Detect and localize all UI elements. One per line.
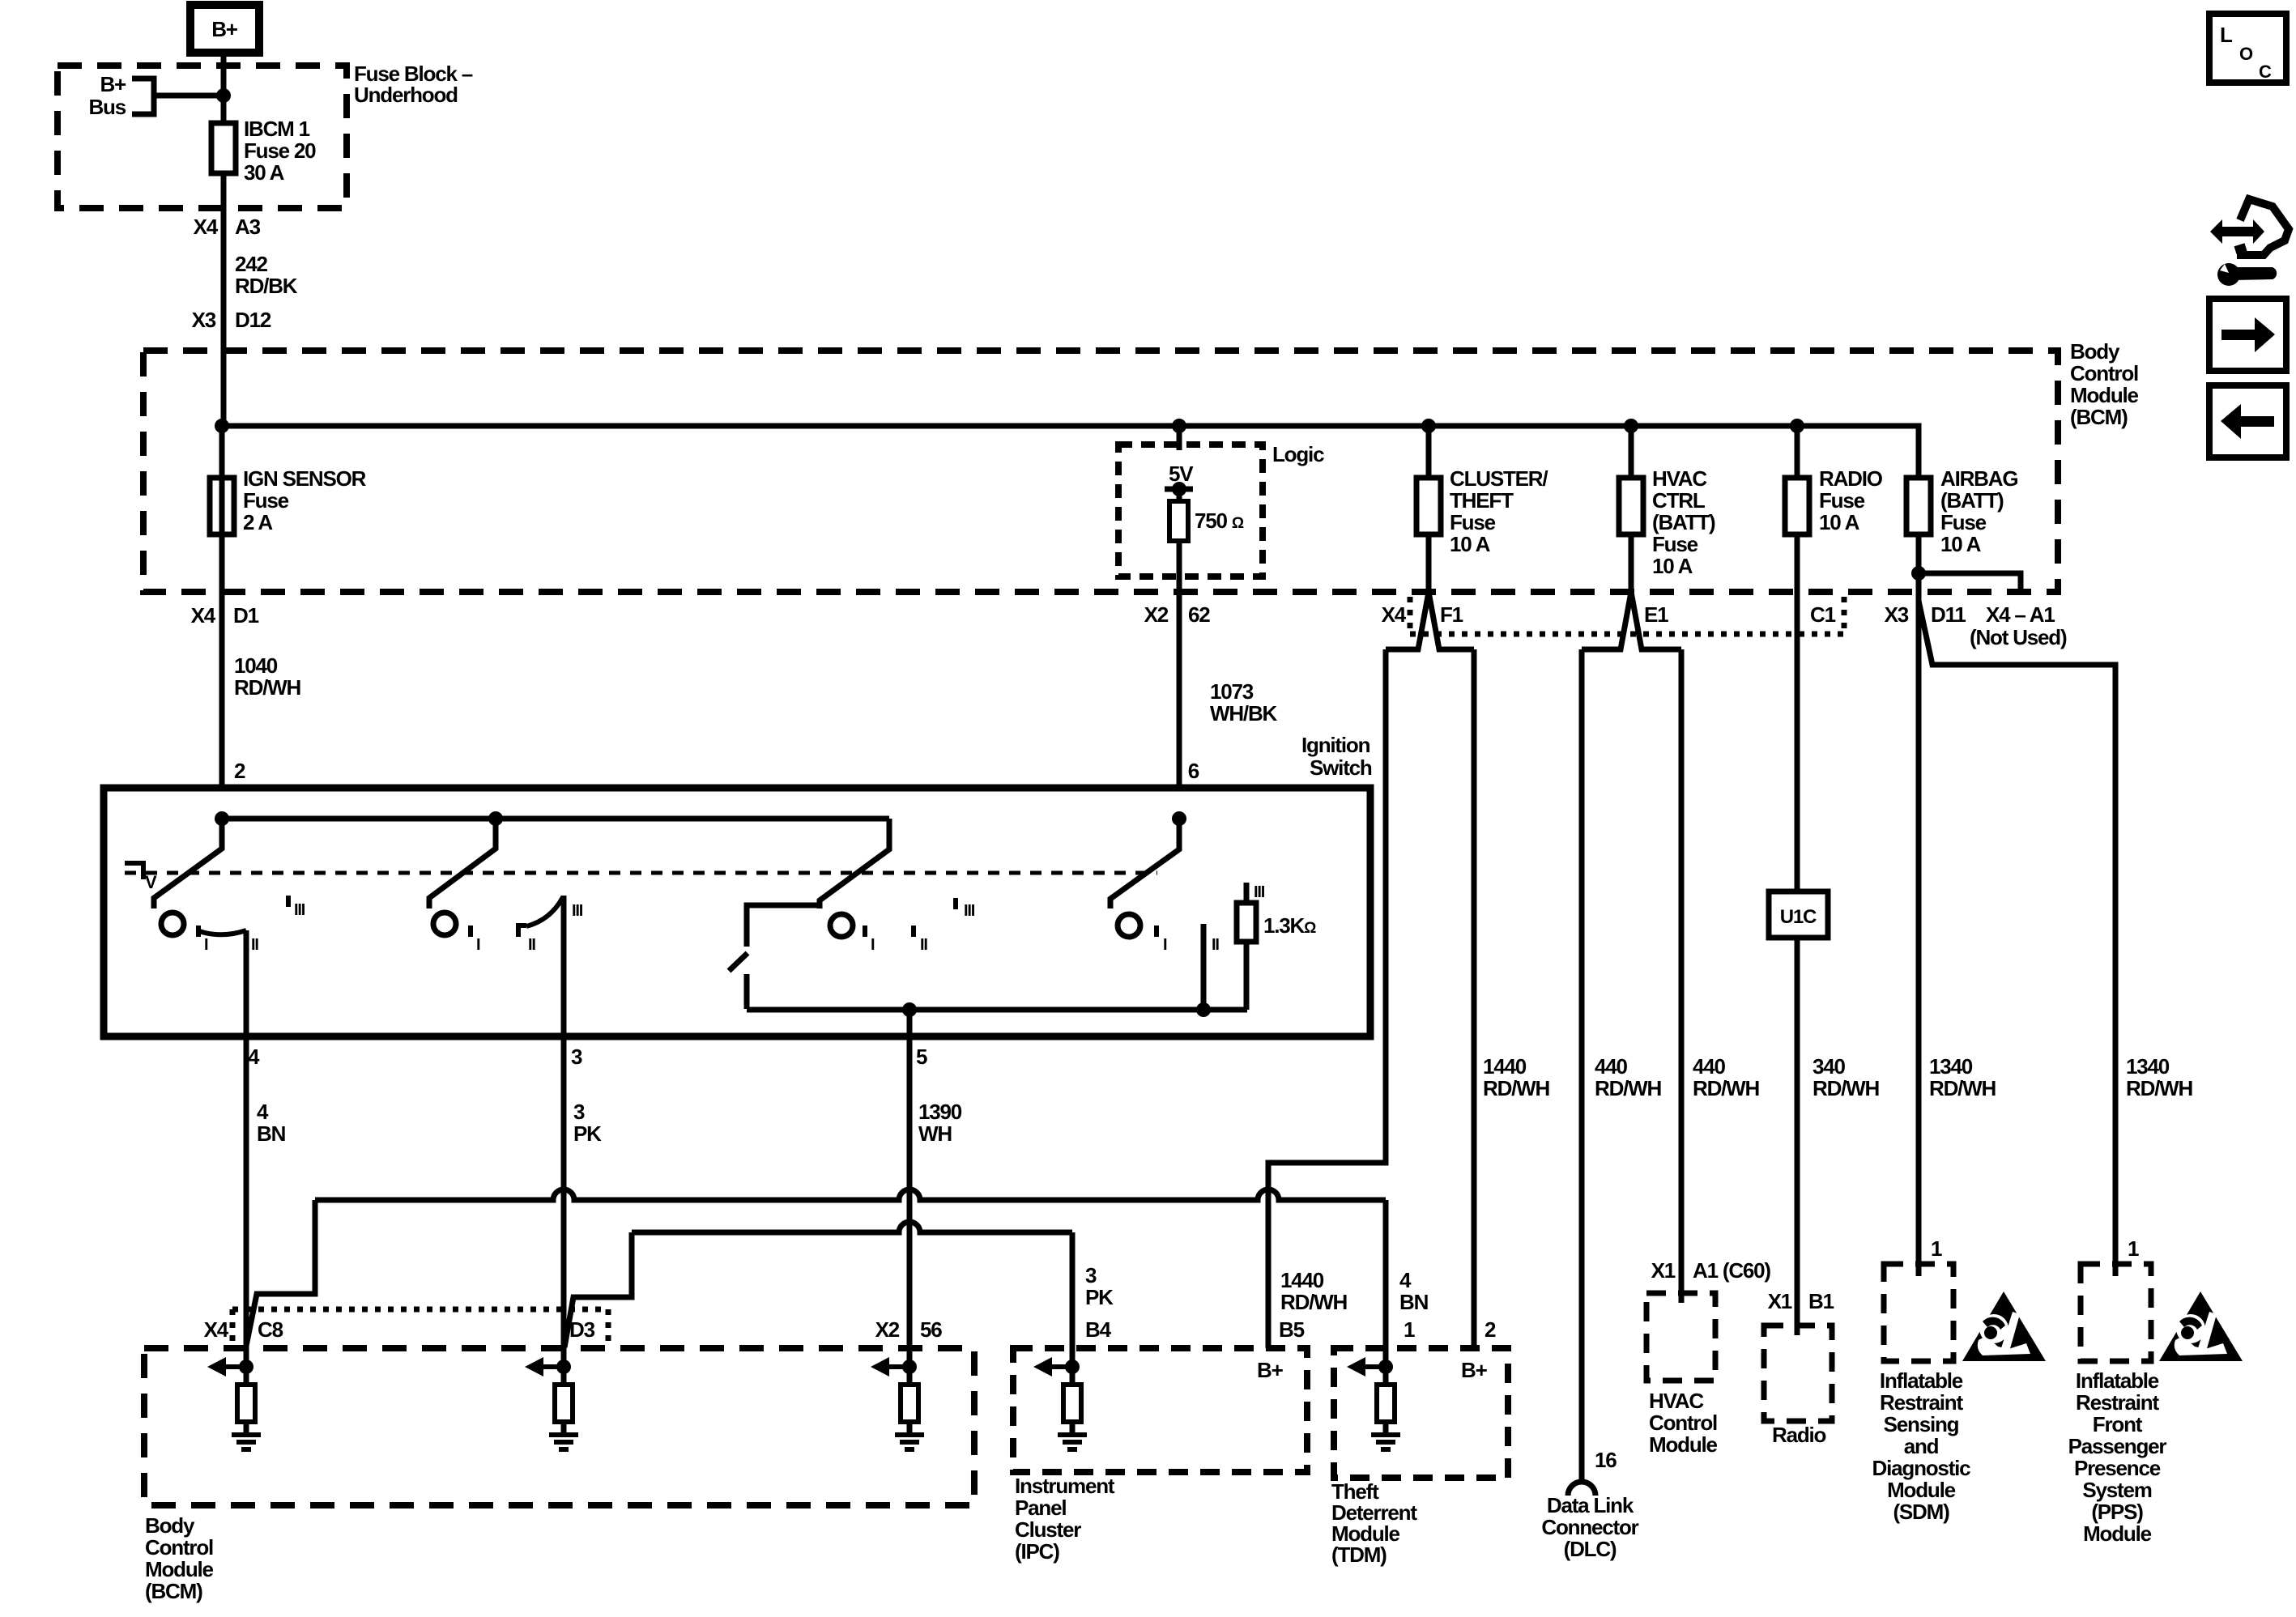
svg-text:Front: Front: [2093, 1412, 2143, 1436]
svg-text:B5: B5: [1279, 1317, 1305, 1342]
svg-text:1340: 1340: [2126, 1054, 2170, 1079]
svg-text:Fuse: Fuse: [243, 488, 289, 513]
svg-text:PK: PK: [573, 1121, 602, 1146]
svg-text:RD/WH: RD/WH: [1595, 1076, 1662, 1100]
svg-text:B+: B+: [211, 17, 238, 41]
svg-text:Bus: Bus: [88, 95, 126, 119]
left arrow navigation box: [2209, 385, 2286, 457]
svg-text:1: 1: [1404, 1317, 1415, 1342]
svg-text:A1 (C60): A1 (C60): [1693, 1258, 1770, 1283]
svg-text:HVAC: HVAC: [1652, 466, 1707, 491]
svg-text:(DLC): (DLC): [1564, 1537, 1617, 1561]
svg-text:RD/BK: RD/BK: [235, 274, 298, 298]
svg-text:I: I: [204, 936, 208, 954]
H2 horizontal with hop: [632, 1222, 1072, 1232]
svg-text:III: III: [572, 902, 583, 920]
svg-text:X4: X4: [1382, 602, 1407, 627]
svg-text:(BCM): (BCM): [2070, 405, 2128, 429]
connector dotted line X4 bottom: [230, 1309, 236, 1344]
svg-text:II: II: [920, 936, 927, 954]
connector D3 arrow resistor ground: [556, 1360, 571, 1374]
switch 3 tick II: [911, 926, 916, 937]
wire B+ Bus to main vertical: [154, 93, 224, 99]
wire 750 ohm to ignition switch pin 6: [1177, 541, 1182, 788]
data link connector cup: [1568, 1482, 1595, 1496]
fuse block underhood dashed box: [58, 66, 347, 208]
svg-text:1390: 1390: [918, 1100, 962, 1124]
svg-text:440: 440: [1693, 1054, 1726, 1079]
switch 3 bottom run: [747, 1007, 1247, 1013]
svg-text:System: System: [2082, 1478, 2151, 1502]
svg-text:X4: X4: [191, 603, 216, 628]
svg-text:(SDM): (SDM): [1893, 1500, 1949, 1524]
svg-text:V: V: [145, 872, 157, 892]
position dashed line: [125, 871, 1157, 875]
svg-text:D1: D1: [233, 603, 259, 628]
wire pin 4 inside box: [244, 930, 249, 1036]
svg-text:I: I: [1163, 936, 1167, 954]
switch 1 tick I: [196, 926, 201, 937]
svg-text:U1C: U1C: [1780, 906, 1817, 928]
svg-text:Fuse: Fuse: [1652, 532, 1698, 556]
svg-text:II: II: [1212, 936, 1219, 954]
connector 56 arrow resistor ground: [902, 1360, 917, 1374]
F1 splice tent: [1386, 592, 1474, 649]
svg-text:THEFT: THEFT: [1450, 488, 1514, 513]
svg-text:C: C: [2259, 62, 2272, 82]
U1C inline connector box: [1769, 891, 1828, 938]
svg-text:3: 3: [1085, 1263, 1097, 1287]
svg-text:Passenger: Passenger: [2068, 1434, 2167, 1458]
wire pin 3 inside box: [561, 896, 567, 1036]
svg-text:II: II: [528, 936, 535, 954]
svg-text:Cluster: Cluster: [1015, 1517, 1081, 1542]
svg-text:D11: D11: [1931, 602, 1966, 627]
junction dot bus at hvac fuse: [1624, 419, 1638, 433]
airbag warning triangle SDM: [1962, 1291, 2046, 1361]
B+ battery feed box: [190, 5, 259, 53]
accessory position symbol: [125, 863, 143, 879]
connector B4 arrow resistor ground: [1065, 1360, 1080, 1374]
svg-text:X3: X3: [192, 308, 216, 332]
svg-text:III: III: [964, 902, 975, 920]
wire 4 BN to BCM C8: [244, 1036, 249, 1367]
switch 4 position II wire: [1201, 924, 1207, 1010]
svg-text:RADIO: RADIO: [1819, 466, 1883, 491]
fuse AIRBAG BATT 10A: [1916, 478, 1922, 1276]
H1 horizontal with hops: [315, 1189, 1386, 1200]
svg-text:II: II: [251, 936, 258, 954]
svg-text:BN: BN: [1399, 1290, 1429, 1314]
svg-text:Inflatable: Inflatable: [1880, 1368, 1963, 1393]
wire F1 left leg to B5: [1268, 649, 1386, 1348]
svg-text:30 A: 30 A: [244, 160, 285, 185]
svg-text:2: 2: [234, 759, 245, 783]
svg-text:X1: X1: [1651, 1258, 1676, 1283]
svg-text:(PPS): (PPS): [2091, 1500, 2143, 1524]
svg-text:WH: WH: [918, 1121, 952, 1146]
svg-text:X2: X2: [875, 1317, 900, 1342]
switch 3 lower contact: [744, 974, 750, 1009]
switch 3 flipper: [820, 819, 889, 908]
switch 2 flipper: [429, 819, 496, 908]
junction dot bus at radio fuse: [1790, 419, 1804, 433]
right arrow navigation box: [2209, 299, 2286, 371]
stub wire X4-A1 not used: [1919, 573, 2021, 592]
switch 1 contact circle: [161, 913, 184, 935]
bus wire inside BCM: [222, 426, 1919, 478]
switch rail wire: [222, 816, 889, 822]
svg-text:10 A: 10 A: [1652, 554, 1693, 578]
fuse HVAC CTRL BATT 10A: [1629, 426, 1634, 592]
inflatable restraint SDM dashed box: [1884, 1264, 1953, 1361]
svg-text:Inflatable: Inflatable: [2076, 1368, 2159, 1393]
svg-text:Control: Control: [145, 1535, 213, 1560]
svg-text:Logic: Logic: [1272, 442, 1324, 466]
vehicle data icon with arrow and wrench: [2235, 199, 2289, 255]
body control module BCM dashed box: [143, 351, 2058, 592]
svg-text:Module: Module: [1649, 1432, 1718, 1457]
switch 3 tick III: [953, 898, 958, 909]
wire bus to 5V: [1177, 426, 1182, 450]
svg-text:62: 62: [1188, 602, 1210, 627]
svg-text:Fuse: Fuse: [1450, 510, 1496, 534]
svg-text:Ignition: Ignition: [1301, 733, 1370, 757]
svg-text:4: 4: [1399, 1268, 1412, 1292]
svg-text:B+: B+: [100, 72, 126, 96]
switch 2 tick II corner: [518, 926, 526, 937]
switch 3 tick I: [863, 926, 867, 937]
hvac control module dashed box: [1646, 1293, 1715, 1381]
junction dot B+ bus: [216, 88, 231, 103]
H2 drop to IPC B4: [1070, 1232, 1076, 1367]
svg-text:RD/WH: RD/WH: [1693, 1076, 1760, 1100]
svg-text:X2: X2: [1144, 602, 1169, 627]
inflatable restraint PPS dashed box: [2081, 1264, 2151, 1361]
svg-text:and: and: [1904, 1434, 1939, 1458]
junction dot bus at IGN SENSOR: [215, 419, 229, 433]
svg-text:5: 5: [916, 1045, 927, 1069]
svg-text:L: L: [2220, 23, 2233, 47]
svg-text:Underhood: Underhood: [354, 83, 458, 107]
svg-text:Module: Module: [1887, 1478, 1956, 1502]
switch 4 contact circle: [1118, 914, 1140, 937]
connector C8 arrow resistor ground: [239, 1360, 253, 1374]
fuse IBCM 1 30A: [211, 123, 236, 173]
svg-text:IGN SENSOR: IGN SENSOR: [243, 466, 367, 491]
D11 splice diagonal to PPS: [1919, 601, 2115, 1276]
BCM bottom dashed box: [144, 1348, 974, 1505]
junction dot bus at cluster fuse: [1421, 419, 1436, 433]
svg-text:Connector: Connector: [1541, 1515, 1638, 1539]
svg-text:A3: A3: [235, 215, 261, 239]
fuse CLUSTER/THEFT 10A: [1426, 426, 1432, 592]
svg-text:Panel: Panel: [1015, 1496, 1066, 1520]
svg-text:Body: Body: [2070, 339, 2120, 364]
switch 4 tick I: [1154, 926, 1159, 937]
svg-text:AIRBAG: AIRBAG: [1940, 466, 2017, 491]
switch 3 start contact runway: [747, 905, 821, 947]
svg-text:RD/WH: RD/WH: [1280, 1290, 1348, 1314]
svg-text:(IPC): (IPC): [1015, 1539, 1059, 1564]
svg-text:(Not Used): (Not Used): [1970, 625, 2067, 649]
svg-text:B4: B4: [1085, 1317, 1112, 1342]
svg-text:6: 6: [1188, 759, 1199, 783]
airbag warning triangle PPS: [2159, 1291, 2243, 1361]
junction dot airbag output: [1911, 566, 1926, 581]
svg-text:1440: 1440: [1280, 1268, 1324, 1292]
svg-text:WH/BK: WH/BK: [1210, 701, 1278, 726]
logic dashed box: [1118, 445, 1263, 577]
H1 drop to TDM pin 1: [1383, 1200, 1389, 1367]
svg-text:56: 56: [920, 1317, 942, 1342]
svg-text:340: 340: [1813, 1054, 1846, 1079]
B+ Bus bracket: [132, 79, 154, 114]
svg-text:Radio: Radio: [1772, 1423, 1826, 1447]
svg-text:Module: Module: [145, 1557, 214, 1581]
svg-text:Restraint: Restraint: [1880, 1390, 1963, 1415]
svg-text:242: 242: [235, 252, 268, 276]
junction dot rail sw1: [215, 811, 229, 826]
switch 3 contact circle: [830, 914, 853, 937]
switch 2 wiper arc to III: [526, 897, 563, 926]
svg-text:RD/WH: RD/WH: [2126, 1076, 2193, 1100]
fuse IGN SENSOR 2A: [210, 478, 234, 534]
svg-text:I: I: [871, 936, 875, 954]
svg-text:Switch: Switch: [1310, 755, 1372, 780]
svg-text:B+: B+: [1257, 1358, 1284, 1382]
svg-text:16: 16: [1595, 1448, 1617, 1472]
wire E1 right leg to HVAC: [1679, 649, 1685, 1303]
svg-text:10 A: 10 A: [1940, 532, 1982, 556]
splice H1 from wire 4 to TDM pin 1: [246, 1200, 315, 1346]
ignition switch box: [104, 788, 1370, 1036]
svg-text:10 A: 10 A: [1450, 532, 1491, 556]
svg-text:Control: Control: [2070, 361, 2138, 385]
svg-text:BN: BN: [257, 1121, 286, 1146]
svg-text:Diagnostic: Diagnostic: [1872, 1456, 1971, 1480]
svg-text:1: 1: [2128, 1236, 2139, 1261]
svg-text:2 A: 2 A: [243, 510, 273, 534]
switch 4 flipper: [1110, 819, 1179, 908]
switch 2 tick I: [468, 926, 473, 937]
wire 3 PK to BCM D3: [561, 1036, 567, 1367]
wire fuse to fuse block bottom: [221, 123, 227, 426]
wire B+ to fuse block: [221, 53, 227, 123]
radio dashed box: [1764, 1326, 1832, 1421]
svg-text:Instrument: Instrument: [1015, 1474, 1115, 1498]
fuse RADIO 10A: [1795, 426, 1800, 1335]
svg-text:Module: Module: [2070, 383, 2139, 407]
wire F1 right leg to TDM pin 2: [1472, 649, 1477, 1348]
junction dot sw4: [1172, 811, 1186, 826]
resistor 1.3K ohm: [1244, 883, 1250, 903]
svg-text:1340: 1340: [1929, 1054, 1973, 1079]
svg-text:1040: 1040: [234, 653, 278, 678]
svg-text:Fuse 20: Fuse 20: [244, 138, 316, 163]
5V supply bar: [1165, 487, 1193, 492]
theft deterrent module dashed box: [1334, 1348, 1508, 1478]
svg-text:D12: D12: [235, 308, 271, 332]
switch 3 start blade: [729, 953, 748, 971]
svg-text:IBCM 1: IBCM 1: [244, 117, 310, 141]
svg-text:4: 4: [248, 1045, 260, 1069]
junction dot rail sw2: [488, 811, 503, 826]
wire pin 5 inside box: [907, 1010, 913, 1036]
instrument panel cluster dashed box: [1013, 1348, 1307, 1472]
svg-text:(TDM): (TDM): [1331, 1543, 1387, 1567]
svg-text:III: III: [294, 901, 305, 919]
svg-text:RD/WH: RD/WH: [1483, 1076, 1550, 1100]
wire 5 1390 WH to BCM 56: [907, 1036, 913, 1367]
svg-text:C1: C1: [1810, 602, 1836, 627]
junction dot pin 5: [902, 1002, 917, 1017]
junction dot II line: [1196, 1002, 1211, 1017]
svg-text:B1: B1: [1808, 1289, 1834, 1313]
svg-text:2: 2: [1485, 1317, 1496, 1342]
svg-text:CLUSTER/: CLUSTER/: [1450, 466, 1548, 491]
junction dot bus at logic: [1172, 419, 1186, 433]
svg-text:10 A: 10 A: [1819, 510, 1860, 534]
svg-text:Fuse: Fuse: [1940, 510, 1987, 534]
svg-text:(BATT): (BATT): [1652, 510, 1715, 534]
E1 splice tent: [1582, 592, 1681, 649]
svg-text:X3: X3: [1885, 602, 1909, 627]
svg-text:I: I: [476, 936, 480, 954]
inner connector dotted rect X4-C1: [1408, 597, 1413, 634]
svg-text:440: 440: [1595, 1054, 1628, 1079]
svg-text:4: 4: [257, 1100, 269, 1124]
svg-text:X4: X4: [194, 215, 219, 239]
svg-text:Control: Control: [1649, 1411, 1717, 1435]
svg-text:RD/WH: RD/WH: [1929, 1076, 1996, 1100]
svg-text:F1: F1: [1440, 602, 1463, 627]
svg-text:1073: 1073: [1210, 679, 1254, 704]
switch 1 flipper: [154, 819, 222, 908]
svg-text:X1: X1: [1768, 1289, 1792, 1313]
svg-text:RD/WH: RD/WH: [1813, 1076, 1880, 1100]
svg-text:HVAC: HVAC: [1649, 1389, 1704, 1413]
svg-text:O: O: [2239, 44, 2253, 64]
splice H2 from wire 3 to IPC B4: [564, 1232, 632, 1347]
svg-text:(BCM): (BCM): [145, 1579, 202, 1603]
svg-text:CTRL: CTRL: [1652, 488, 1706, 513]
svg-text:C8: C8: [258, 1317, 283, 1342]
svg-text:E1: E1: [1644, 602, 1668, 627]
svg-text:B+: B+: [1461, 1358, 1488, 1382]
svg-text:Restraint: Restraint: [2076, 1390, 2159, 1415]
svg-text:Fuse: Fuse: [1819, 488, 1865, 513]
wire D1 to ignition switch pin 2: [219, 426, 225, 788]
svg-text:3: 3: [571, 1045, 582, 1069]
svg-text:RD/WH: RD/WH: [234, 675, 301, 700]
svg-text:X4 – A1: X4 – A1: [1986, 602, 2055, 627]
junction dot 5V: [1172, 482, 1186, 496]
svg-text:1440: 1440: [1483, 1054, 1527, 1079]
resistor 750 ohm: [1177, 489, 1182, 501]
svg-text:Presence: Presence: [2074, 1456, 2161, 1480]
svg-text:Module: Module: [2083, 1521, 2152, 1546]
svg-text:1: 1: [1931, 1236, 1942, 1261]
svg-text:PK: PK: [1085, 1285, 1114, 1309]
svg-text:3: 3: [573, 1100, 585, 1124]
connector TDM 1 arrow resistor ground: [1378, 1360, 1393, 1374]
wire E1 left leg to DLC: [1579, 649, 1585, 1482]
svg-text:Sensing: Sensing: [1884, 1412, 1959, 1436]
svg-text:III: III: [1254, 883, 1265, 901]
switch 1 wiper arc to II: [199, 930, 246, 934]
switch 2 contact circle: [433, 913, 456, 935]
svg-text:D3: D3: [569, 1317, 595, 1342]
LOC reference box: [2209, 14, 2286, 83]
switch 1 tick III: [286, 896, 291, 907]
svg-text:(BATT): (BATT): [1940, 488, 2004, 513]
svg-text:Data Link: Data Link: [1547, 1493, 1634, 1517]
svg-text:X4: X4: [204, 1317, 229, 1342]
svg-text:Body: Body: [145, 1513, 195, 1538]
